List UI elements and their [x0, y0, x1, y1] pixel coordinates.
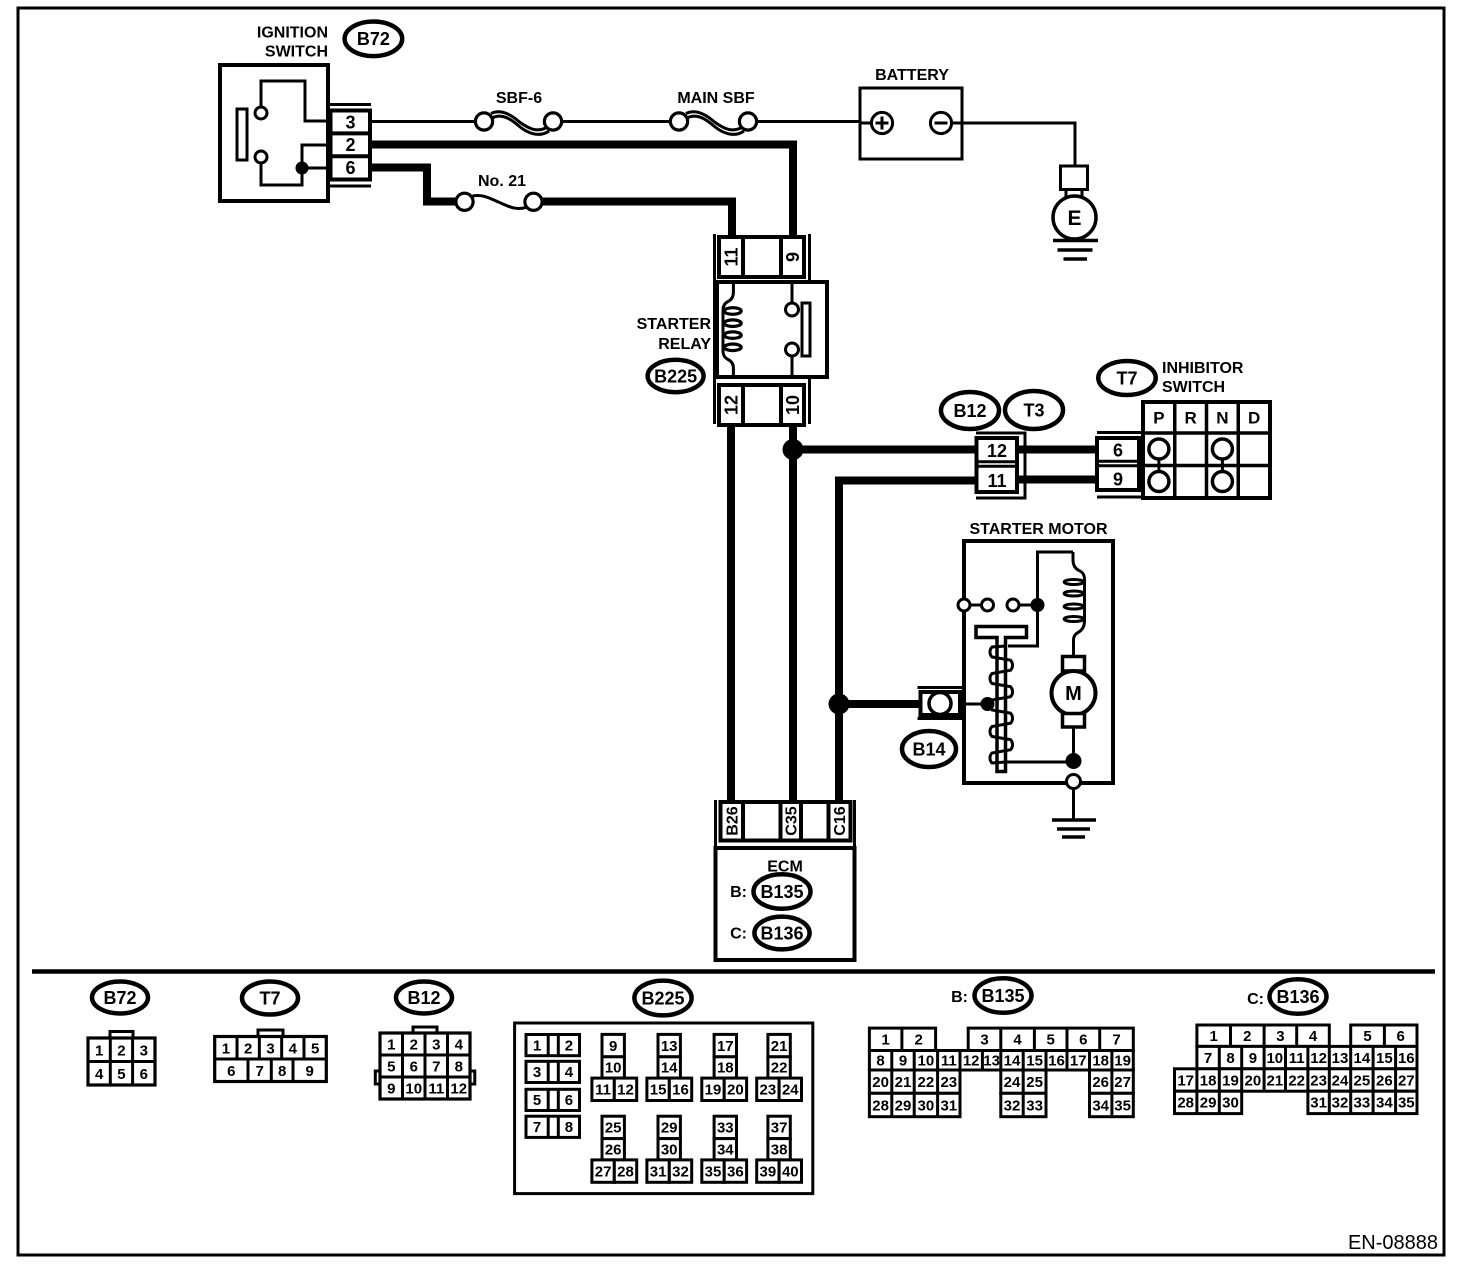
- svg-text:32: 32: [672, 1163, 689, 1180]
- svg-text:21: 21: [1266, 1072, 1283, 1089]
- svg-text:2: 2: [244, 1040, 252, 1057]
- svg-text:B26: B26: [724, 806, 741, 835]
- svg-text:22: 22: [918, 1074, 935, 1091]
- svg-text:D: D: [1248, 408, 1260, 427]
- svg-text:16: 16: [1048, 1053, 1065, 1070]
- svg-text:10: 10: [1266, 1050, 1283, 1067]
- svg-text:2: 2: [1243, 1028, 1251, 1045]
- svg-text:11: 11: [1289, 1050, 1305, 1067]
- svg-text:C35: C35: [783, 806, 800, 835]
- svg-text:40: 40: [782, 1163, 799, 1180]
- svg-text:3: 3: [533, 1064, 541, 1081]
- svg-text:35: 35: [705, 1163, 722, 1180]
- svg-text:4: 4: [455, 1036, 464, 1053]
- svg-text:T7: T7: [259, 988, 280, 1008]
- svg-text:34: 34: [1376, 1095, 1393, 1112]
- svg-text:23: 23: [940, 1074, 957, 1091]
- svg-text:20: 20: [727, 1082, 744, 1099]
- svg-text:31: 31: [650, 1163, 667, 1180]
- svg-text:26: 26: [1376, 1072, 1393, 1089]
- svg-text:12: 12: [721, 395, 741, 415]
- svg-text:33: 33: [1026, 1097, 1043, 1114]
- svg-text:14: 14: [661, 1060, 678, 1077]
- svg-text:3: 3: [345, 112, 355, 132]
- svg-text:3: 3: [140, 1042, 148, 1059]
- svg-text:9: 9: [387, 1080, 395, 1097]
- svg-text:12: 12: [963, 1053, 980, 1070]
- svg-text:9: 9: [783, 252, 803, 262]
- svg-text:32: 32: [1332, 1095, 1349, 1112]
- svg-text:B14: B14: [912, 739, 945, 759]
- svg-text:6: 6: [140, 1066, 148, 1083]
- svg-text:6: 6: [565, 1092, 573, 1109]
- svg-text:16: 16: [672, 1082, 689, 1099]
- svg-text:2: 2: [410, 1036, 418, 1053]
- svg-text:36: 36: [727, 1163, 744, 1180]
- svg-text:BATTERY: BATTERY: [875, 67, 949, 84]
- svg-text:4: 4: [95, 1066, 104, 1083]
- svg-text:17: 17: [1070, 1053, 1087, 1070]
- svg-text:19: 19: [1114, 1053, 1131, 1070]
- svg-text:4: 4: [1309, 1028, 1318, 1045]
- svg-text:35: 35: [1114, 1097, 1131, 1114]
- svg-text:7: 7: [432, 1058, 440, 1075]
- svg-text:18: 18: [1200, 1072, 1217, 1089]
- svg-text:29: 29: [895, 1097, 912, 1114]
- svg-text:30: 30: [661, 1141, 678, 1158]
- svg-text:29: 29: [661, 1120, 678, 1137]
- svg-text:19: 19: [1222, 1072, 1239, 1089]
- svg-text:17: 17: [1177, 1072, 1194, 1089]
- svg-text:3: 3: [266, 1040, 274, 1057]
- svg-text:SWITCH: SWITCH: [265, 44, 328, 61]
- svg-text:27: 27: [1114, 1074, 1131, 1091]
- svg-text:1: 1: [1210, 1028, 1218, 1045]
- svg-text:22: 22: [1288, 1072, 1305, 1089]
- svg-text:B12: B12: [407, 988, 440, 1008]
- svg-text:8: 8: [455, 1058, 463, 1075]
- svg-text:7: 7: [1204, 1050, 1212, 1067]
- svg-text:C:: C:: [1247, 991, 1264, 1008]
- svg-text:5: 5: [311, 1040, 319, 1057]
- svg-text:4: 4: [289, 1040, 298, 1057]
- svg-text:24: 24: [1332, 1072, 1349, 1089]
- svg-text:15: 15: [1026, 1053, 1043, 1070]
- svg-text:B136: B136: [1276, 987, 1319, 1007]
- svg-text:27: 27: [1398, 1072, 1415, 1089]
- svg-text:RELAY: RELAY: [658, 336, 711, 353]
- svg-text:N: N: [1216, 408, 1228, 427]
- svg-text:12: 12: [450, 1080, 467, 1097]
- svg-text:18: 18: [1092, 1053, 1109, 1070]
- svg-text:11: 11: [721, 247, 741, 266]
- svg-text:20: 20: [872, 1074, 889, 1091]
- svg-text:33: 33: [1354, 1095, 1371, 1112]
- svg-text:4: 4: [565, 1064, 574, 1081]
- svg-text:28: 28: [617, 1163, 634, 1180]
- svg-text:9: 9: [305, 1063, 313, 1080]
- svg-text:6: 6: [410, 1058, 418, 1075]
- svg-text:25: 25: [1026, 1074, 1043, 1091]
- svg-text:23: 23: [1310, 1072, 1327, 1089]
- svg-text:EN-08888: EN-08888: [1348, 1232, 1438, 1254]
- svg-text:25: 25: [1354, 1072, 1371, 1089]
- svg-text:12: 12: [987, 441, 1007, 461]
- svg-text:8: 8: [278, 1063, 286, 1080]
- svg-text:11: 11: [595, 1082, 611, 1099]
- svg-text:9: 9: [899, 1053, 907, 1070]
- svg-text:B225: B225: [654, 366, 697, 386]
- svg-text:22: 22: [771, 1060, 788, 1077]
- svg-text:C16: C16: [832, 806, 849, 835]
- svg-text:B225: B225: [641, 988, 684, 1008]
- svg-text:31: 31: [940, 1097, 957, 1114]
- svg-text:9: 9: [1249, 1050, 1257, 1067]
- svg-text:1: 1: [95, 1042, 103, 1059]
- svg-text:3: 3: [432, 1036, 440, 1053]
- svg-text:17: 17: [717, 1038, 734, 1055]
- svg-text:B72: B72: [357, 29, 390, 49]
- svg-text:B72: B72: [103, 988, 136, 1008]
- svg-text:7: 7: [255, 1063, 263, 1080]
- svg-text:20: 20: [1245, 1072, 1262, 1089]
- svg-text:33: 33: [717, 1120, 734, 1137]
- svg-text:M: M: [1065, 683, 1082, 705]
- svg-text:14: 14: [1004, 1053, 1021, 1070]
- svg-text:32: 32: [1004, 1097, 1021, 1114]
- svg-text:19: 19: [705, 1082, 722, 1099]
- svg-text:10: 10: [783, 395, 803, 415]
- svg-text:23: 23: [760, 1082, 777, 1099]
- svg-text:C:: C:: [730, 926, 747, 943]
- svg-text:9: 9: [609, 1038, 617, 1055]
- svg-text:B:: B:: [951, 989, 968, 1006]
- svg-text:1: 1: [222, 1040, 230, 1057]
- svg-text:T3: T3: [1023, 400, 1044, 420]
- svg-text:B:: B:: [730, 884, 747, 901]
- svg-text:6: 6: [1079, 1032, 1087, 1049]
- svg-text:6: 6: [345, 158, 355, 178]
- svg-text:SWITCH: SWITCH: [1162, 379, 1225, 396]
- svg-text:28: 28: [1177, 1095, 1194, 1112]
- svg-text:15: 15: [1376, 1050, 1393, 1067]
- svg-text:B135: B135: [760, 882, 803, 902]
- svg-text:7: 7: [1112, 1032, 1120, 1049]
- svg-text:4: 4: [1013, 1032, 1022, 1049]
- svg-text:IGNITION: IGNITION: [257, 25, 328, 42]
- svg-text:11: 11: [941, 1053, 957, 1070]
- svg-text:5: 5: [1047, 1032, 1055, 1049]
- svg-text:R: R: [1184, 408, 1196, 427]
- svg-text:34: 34: [717, 1141, 734, 1158]
- svg-text:T7: T7: [1116, 368, 1137, 388]
- svg-text:INHIBITOR: INHIBITOR: [1162, 360, 1244, 377]
- svg-text:13: 13: [661, 1038, 678, 1055]
- svg-text:2: 2: [565, 1037, 573, 1054]
- svg-text:24: 24: [782, 1082, 799, 1099]
- svg-text:5: 5: [1363, 1028, 1371, 1045]
- svg-text:21: 21: [895, 1074, 912, 1091]
- svg-text:26: 26: [1092, 1074, 1109, 1091]
- svg-text:8: 8: [876, 1053, 884, 1070]
- svg-text:21: 21: [771, 1038, 788, 1055]
- svg-text:10: 10: [918, 1053, 935, 1070]
- svg-text:12: 12: [617, 1082, 634, 1099]
- svg-text:2: 2: [915, 1032, 923, 1049]
- svg-text:No. 21: No. 21: [478, 173, 526, 190]
- svg-text:10: 10: [405, 1080, 422, 1097]
- svg-text:MAIN SBF: MAIN SBF: [677, 90, 755, 107]
- svg-text:28: 28: [872, 1097, 889, 1114]
- svg-text:25: 25: [605, 1120, 622, 1137]
- svg-text:35: 35: [1398, 1095, 1415, 1112]
- svg-text:5: 5: [387, 1058, 395, 1075]
- svg-text:STARTER MOTOR: STARTER MOTOR: [969, 521, 1108, 538]
- svg-text:1: 1: [533, 1037, 541, 1054]
- svg-text:P: P: [1153, 408, 1164, 427]
- svg-text:5: 5: [533, 1092, 541, 1109]
- svg-text:10: 10: [605, 1060, 622, 1077]
- svg-text:2: 2: [345, 135, 355, 155]
- svg-text:13: 13: [983, 1053, 1000, 1070]
- svg-text:3: 3: [1276, 1028, 1284, 1045]
- svg-text:9: 9: [1113, 469, 1123, 489]
- svg-text:38: 38: [771, 1141, 788, 1158]
- svg-text:1: 1: [881, 1032, 889, 1049]
- svg-text:26: 26: [605, 1141, 622, 1158]
- svg-text:30: 30: [1222, 1095, 1239, 1112]
- svg-text:15: 15: [650, 1082, 667, 1099]
- svg-text:12: 12: [1310, 1050, 1327, 1067]
- svg-text:5: 5: [117, 1066, 125, 1083]
- svg-text:16: 16: [1398, 1050, 1415, 1067]
- svg-text:7: 7: [533, 1119, 541, 1136]
- svg-text:13: 13: [1332, 1050, 1349, 1067]
- svg-text:3: 3: [980, 1032, 988, 1049]
- svg-text:34: 34: [1092, 1097, 1109, 1114]
- svg-text:11: 11: [987, 471, 1006, 491]
- svg-text:29: 29: [1200, 1095, 1217, 1112]
- svg-text:37: 37: [771, 1120, 788, 1137]
- svg-text:31: 31: [1310, 1095, 1327, 1112]
- svg-text:14: 14: [1354, 1050, 1371, 1067]
- svg-text:39: 39: [760, 1163, 777, 1180]
- svg-text:27: 27: [595, 1163, 612, 1180]
- svg-text:STARTER: STARTER: [637, 316, 712, 333]
- svg-text:2: 2: [117, 1042, 125, 1059]
- svg-text:1: 1: [387, 1036, 395, 1053]
- svg-text:E: E: [1067, 207, 1081, 230]
- svg-text:24: 24: [1004, 1074, 1021, 1091]
- svg-text:B135: B135: [981, 986, 1024, 1006]
- svg-text:6: 6: [1397, 1028, 1405, 1045]
- svg-text:8: 8: [1226, 1050, 1234, 1067]
- svg-text:18: 18: [717, 1060, 734, 1077]
- svg-text:11: 11: [428, 1080, 444, 1097]
- svg-text:8: 8: [565, 1119, 573, 1136]
- svg-text:6: 6: [1113, 440, 1123, 460]
- svg-text:30: 30: [918, 1097, 935, 1114]
- svg-text:B12: B12: [953, 401, 986, 421]
- svg-text:SBF-6: SBF-6: [496, 90, 542, 107]
- svg-text:B136: B136: [760, 923, 803, 943]
- svg-text:6: 6: [227, 1063, 235, 1080]
